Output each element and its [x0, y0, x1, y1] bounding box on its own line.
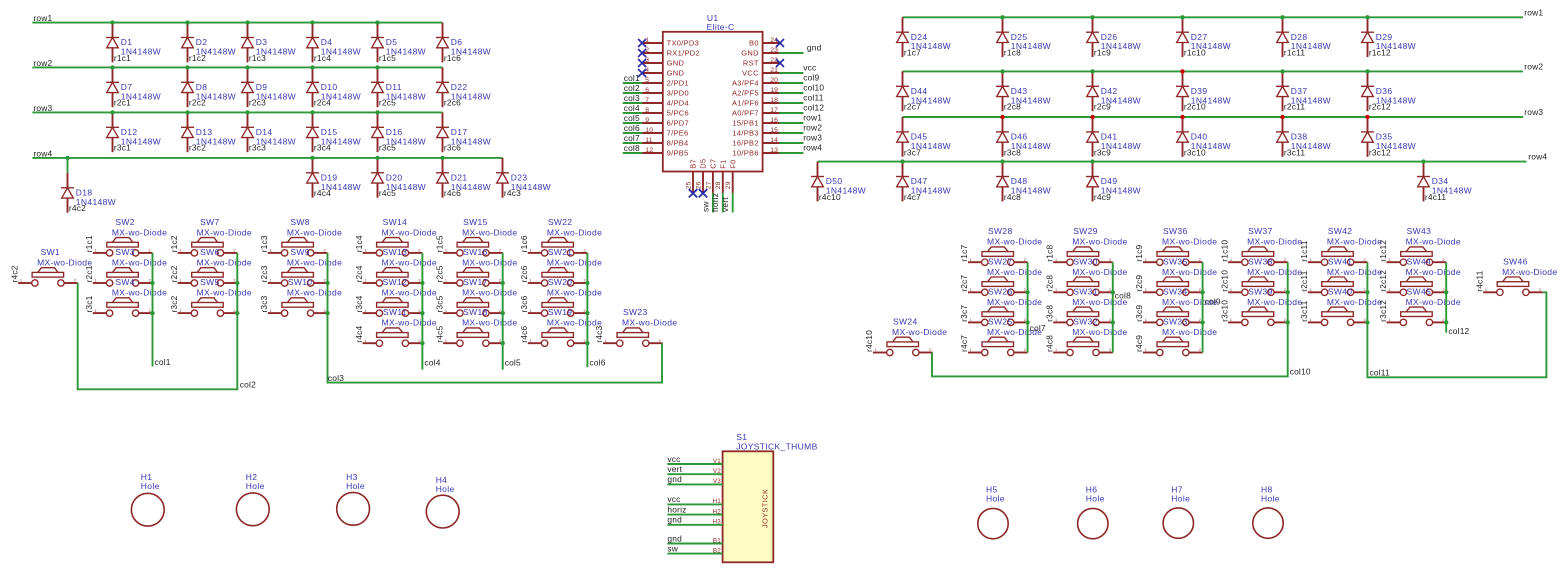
switch SW36 (MX-wo-Diode, net r1c9): [1134, 226, 1217, 265]
junction col4 r3: [420, 311, 424, 315]
junction col3/SW9: [325, 281, 329, 285]
svg-text:1: 1: [445, 309, 447, 313]
svg-text:D5: D5: [699, 159, 708, 169]
svg-text:MX-wo-Diode: MX-wo-Diode: [462, 227, 517, 237]
U1 pin 14 16/PB2: [732, 137, 780, 148]
diode D25 (1N4148W, net r1c8): [996, 17, 1051, 57]
svg-text:MX-wo-Diode: MX-wo-Diode: [987, 267, 1042, 277]
wire sw at U1 bottom: [712, 193, 714, 213]
svg-text:r2c7: r2c7: [904, 102, 921, 112]
svg-text:1: 1: [1388, 258, 1390, 262]
svg-text:r3c2: r3c2: [189, 143, 206, 153]
diode D13 (1N4148W, net r3c2): [181, 112, 236, 152]
diode D44 (1N4148W, net r2c7): [896, 71, 951, 111]
svg-text:col2: col2: [624, 83, 640, 93]
diode D49 (1N4148W, net r4c9): [1086, 162, 1141, 202]
svg-text:F1: F1: [718, 159, 727, 168]
svg-text:15: 15: [770, 127, 778, 134]
svg-text:SW38: SW38: [1248, 256, 1273, 266]
svg-text:SW45: SW45: [1407, 286, 1432, 296]
svg-text:MX-wo-Diode: MX-wo-Diode: [892, 327, 947, 337]
svg-text:6: 6: [645, 87, 649, 94]
svg-text:2: 2: [1442, 318, 1444, 322]
svg-text:SW4: SW4: [115, 277, 134, 287]
junction col2/SW6: [235, 281, 239, 285]
svg-text:col8: col8: [1115, 291, 1131, 301]
svg-text:r3c3: r3c3: [249, 143, 266, 153]
svg-text:2: 2: [584, 279, 586, 283]
junction row3 x187: [185, 110, 189, 114]
svg-text:A2/PF5: A2/PF5: [732, 88, 759, 97]
diode D37 (1N4148W, net r2c11): [1276, 71, 1331, 111]
diode D50 (1N4148W, net r4c10): [811, 162, 866, 202]
svg-text:2: 2: [74, 279, 76, 283]
svg-text:col8: col8: [624, 143, 640, 153]
wire col4: [421, 253, 423, 370]
diode D40 (1N4148W, net r3c10): [1176, 117, 1231, 157]
svg-text:2: 2: [1364, 258, 1366, 262]
diode D47 (1N4148W, net r4c7): [896, 162, 951, 202]
svg-text:r4c10: r4c10: [819, 192, 841, 202]
diode D38 (1N4148W, net r3c11): [1276, 117, 1331, 157]
svg-text:2: 2: [1024, 318, 1026, 322]
svg-text:row3: row3: [33, 103, 52, 113]
svg-text:r1c10: r1c10: [1184, 48, 1206, 58]
svg-text:col9: col9: [803, 72, 819, 82]
U1 pin 5 2/PD1: [642, 77, 689, 88]
svg-text:r2c1: r2c1: [84, 265, 94, 282]
svg-text:row2: row2: [33, 58, 52, 68]
wire col12 at U1: [779, 112, 803, 114]
svg-text:2: 2: [1442, 258, 1444, 262]
svg-text:r1c1: r1c1: [84, 235, 94, 252]
no-connect U1 pin 24: [776, 39, 784, 47]
diode D1 (1N4148W, net r1c1): [106, 23, 161, 63]
svg-text:1: 1: [530, 309, 532, 313]
svg-text:29: 29: [725, 181, 732, 189]
svg-text:4/PD4: 4/PD4: [667, 98, 689, 107]
svg-text:10: 10: [645, 127, 653, 134]
switch SW10 (MX-wo-Diode, net r3c3): [259, 277, 342, 316]
junction col6 r4: [585, 341, 589, 345]
wire col11 at U1: [779, 102, 803, 104]
svg-text:2: 2: [324, 309, 326, 313]
wire col1 at U1: [623, 82, 642, 84]
U1 pin 27 C7: [705, 159, 717, 193]
junction col11/SW40: [1365, 320, 1369, 324]
svg-text:1: 1: [1145, 288, 1147, 292]
svg-text:MX-wo-Diode: MX-wo-Diode: [1247, 297, 1302, 307]
diode D41 (1N4148W, net r3c9): [1086, 117, 1141, 157]
svg-text:col5: col5: [624, 113, 640, 123]
svg-text:MX-wo-Diode: MX-wo-Diode: [112, 288, 167, 298]
switch SW31 (MX-wo-Diode, net r3c8): [1044, 286, 1127, 325]
junction row2 x312: [310, 65, 314, 69]
junction row1 x1092: [1090, 15, 1094, 19]
diode D11 (1N4148W, net r2c5): [371, 67, 426, 107]
svg-text:MX-wo-Diode: MX-wo-Diode: [462, 258, 517, 268]
switch SW3 (MX-wo-Diode, net r2c1): [84, 247, 167, 286]
svg-text:SW27: SW27: [988, 256, 1013, 266]
svg-text:B1: B1: [713, 537, 721, 544]
svg-text:6/PD7: 6/PD7: [667, 118, 689, 127]
svg-text:SW23: SW23: [623, 307, 648, 317]
junction col1/SW3: [150, 281, 154, 285]
svg-text:SW41: SW41: [1328, 256, 1353, 266]
svg-text:8: 8: [645, 107, 649, 114]
svg-text:JOYSTICK_THUMB: JOYSTICK_THUMB: [736, 442, 817, 452]
svg-text:9: 9: [645, 117, 649, 124]
U1 pin 17 A0/PF7: [732, 107, 780, 118]
svg-text:14/PB3: 14/PB3: [732, 128, 758, 137]
wire col8 at U1: [623, 152, 642, 154]
S1 pin H1 net vcc: [667, 494, 722, 505]
svg-text:2: 2: [149, 279, 151, 283]
svg-text:MX-wo-Diode: MX-wo-Diode: [197, 288, 252, 298]
svg-text:A0/PF7: A0/PF7: [732, 108, 759, 117]
wire row3 at U1: [779, 142, 803, 144]
svg-text:SW13: SW13: [383, 247, 408, 257]
junction row2 x1182: [1180, 69, 1184, 73]
S1 pin V1 net vcc: [667, 454, 722, 465]
svg-text:MX-wo-Diode: MX-wo-Diode: [1162, 237, 1217, 247]
diode D45 (1N4148W, net r3c7): [896, 117, 951, 157]
svg-text:col11: col11: [1370, 367, 1391, 377]
U1 pin 29 F0: [725, 159, 737, 192]
svg-text:r1c6: r1c6: [444, 53, 461, 63]
svg-text:Hole: Hole: [1171, 494, 1190, 504]
switch SW21 (MX-wo-Diode, net r2c6): [519, 247, 602, 286]
svg-text:2: 2: [584, 339, 586, 343]
svg-text:r4c2: r4c2: [9, 265, 19, 282]
svg-text:23: 23: [770, 47, 778, 54]
svg-text:MX-wo-Diode: MX-wo-Diode: [287, 258, 342, 268]
junction col9 r3: [1200, 320, 1204, 324]
svg-text:13: 13: [770, 147, 778, 154]
svg-text:2: 2: [324, 249, 326, 253]
svg-text:1: 1: [605, 339, 607, 343]
junction row2 x112: [110, 65, 114, 69]
wire col2 at U1: [623, 92, 642, 94]
svg-text:r1c8: r1c8: [1044, 244, 1054, 261]
svg-text:r4c8: r4c8: [1044, 335, 1054, 352]
svg-text:r2c9: r2c9: [1094, 102, 1111, 112]
svg-text:r3c7: r3c7: [959, 305, 969, 322]
junction col2/SW5: [235, 311, 239, 315]
svg-text:MX-wo-Diode: MX-wo-Diode: [987, 297, 1042, 307]
junction row4 x1423: [1421, 159, 1425, 163]
svg-text:r1c7: r1c7: [959, 244, 969, 261]
U1 pin 2 RX1/PD2: [642, 47, 700, 58]
svg-text:2: 2: [233, 309, 235, 313]
junction row1 x1182: [1180, 15, 1184, 19]
svg-text:1: 1: [1145, 348, 1147, 352]
svg-text:7/PE6: 7/PE6: [667, 128, 689, 137]
switch SW12 (MX-wo-Diode, net r3c4): [354, 277, 437, 316]
svg-text:r1c9: r1c9: [1094, 48, 1111, 58]
svg-text:r4c11: r4c11: [1474, 270, 1484, 291]
diode D14 (1N4148W, net r3c3): [241, 112, 296, 152]
wire row1 (right segment): [903, 16, 1524, 18]
diode D4 (1N4148W, net r1c4): [306, 23, 361, 63]
svg-text:2: 2: [1024, 258, 1026, 262]
svg-text:col7: col7: [1030, 323, 1046, 333]
svg-text:r2c10: r2c10: [1184, 102, 1206, 112]
no-connect U1 pin 4: [638, 69, 646, 77]
junction row4 x1002: [1000, 159, 1004, 163]
svg-text:r2c5: r2c5: [434, 265, 444, 282]
svg-text:r2c9: r2c9: [1134, 275, 1144, 292]
svg-text:sw: sw: [667, 543, 678, 553]
U1 pin 12 9/PB5: [642, 147, 688, 158]
svg-text:12: 12: [645, 147, 653, 154]
svg-text:r1c11: r1c11: [1299, 240, 1309, 261]
junction row1 x377: [375, 20, 379, 24]
svg-text:MX-wo-Diode: MX-wo-Diode: [1072, 267, 1127, 277]
svg-text:1: 1: [179, 309, 181, 313]
svg-text:r2c1: r2c1: [114, 98, 131, 108]
svg-text:MX-wo-Diode: MX-wo-Diode: [1327, 267, 1382, 277]
junction row2 x1092: [1090, 69, 1094, 73]
diode D21 (1N4148W, net r4c6): [436, 158, 491, 198]
svg-text:r1c5: r1c5: [379, 53, 396, 63]
svg-text:2: 2: [1539, 288, 1541, 292]
wire gnd at U1: [779, 52, 803, 54]
svg-text:1: 1: [445, 249, 447, 253]
svg-text:r1c6: r1c6: [519, 235, 529, 252]
switch SW37 (MX-wo-Diode, net r1c10): [1219, 226, 1302, 265]
diode D29 (1N4148W, net r1c12): [1361, 17, 1416, 57]
junction col8 r2: [1111, 290, 1115, 294]
svg-text:MX-wo-Diode: MX-wo-Diode: [1162, 267, 1217, 277]
wire col9 at U1: [779, 82, 803, 84]
svg-text:SW10: SW10: [288, 277, 313, 287]
svg-text:2: 2: [233, 279, 235, 283]
switch SW13 (MX-wo-Diode, net r2c4): [354, 247, 437, 286]
diode D2 (1N4148W, net r1c2): [181, 23, 236, 63]
junction row2 x1367: [1365, 69, 1369, 73]
svg-text:2: 2: [499, 249, 501, 253]
svg-text:1: 1: [1055, 258, 1057, 262]
svg-text:MX-wo-Diode: MX-wo-Diode: [382, 258, 437, 268]
switch SW17 (MX-wo-Diode, net r3c5): [434, 277, 517, 316]
svg-text:RX1/PD2: RX1/PD2: [667, 48, 700, 57]
svg-text:2: 2: [1199, 288, 1201, 292]
svg-text:VCC: VCC: [742, 68, 759, 77]
U1 pin 24 B0: [749, 37, 780, 48]
svg-text:19: 19: [770, 87, 778, 94]
svg-text:1: 1: [1230, 288, 1232, 292]
junction col4 r2: [420, 281, 424, 285]
svg-text:1: 1: [1145, 258, 1147, 262]
svg-text:r1c2: r1c2: [169, 235, 179, 252]
svg-text:1: 1: [95, 309, 97, 313]
svg-text:row4: row4: [33, 148, 52, 158]
svg-text:SW5: SW5: [200, 277, 219, 287]
svg-text:Hole: Hole: [986, 494, 1005, 504]
junction col5 r3: [501, 311, 505, 315]
svg-text:2: 2: [584, 249, 586, 253]
svg-text:MX-wo-Diode: MX-wo-Diode: [382, 288, 437, 298]
svg-text:r1c3: r1c3: [249, 53, 266, 63]
wire col7: [1027, 262, 1029, 352]
svg-text:r2c6: r2c6: [519, 265, 529, 282]
svg-text:14: 14: [770, 137, 778, 144]
svg-text:MX-wo-Diode: MX-wo-Diode: [287, 288, 342, 298]
wire row4 (right segment): [818, 161, 1527, 163]
svg-text:MX-wo-Diode: MX-wo-Diode: [382, 227, 437, 237]
switch SW46 (MX-wo-Diode, net r4c11): [1474, 256, 1557, 295]
switch SW14 (MX-wo-Diode, net r1c4): [354, 217, 437, 256]
wire col9: [1202, 262, 1204, 352]
switch SW28 (MX-wo-Diode, net r1c7): [959, 226, 1042, 265]
svg-text:1: 1: [270, 279, 272, 283]
U1 pin 1 TX0/PD3: [642, 37, 699, 48]
diode D5 (1N4148W, net r1c5): [371, 23, 426, 63]
svg-text:r2c11: r2c11: [1299, 270, 1309, 291]
svg-text:MX-wo-Diode: MX-wo-Diode: [462, 318, 517, 328]
switch SW25 (MX-wo-Diode, net r4c7): [959, 317, 1042, 356]
svg-text:SW36: SW36: [1163, 226, 1188, 236]
svg-text:16: 16: [770, 117, 778, 124]
diode D8 (1N4148W, net r2c2): [181, 67, 236, 107]
svg-text:B0: B0: [749, 38, 759, 47]
svg-text:r2c2: r2c2: [169, 265, 179, 282]
svg-text:1: 1: [1310, 318, 1312, 322]
svg-text:vert: vert: [720, 197, 730, 212]
diode D16 (1N4148W, net r3c5): [371, 112, 426, 152]
svg-text:r4c5: r4c5: [379, 188, 396, 198]
svg-text:MX-wo-Diode: MX-wo-Diode: [622, 318, 677, 328]
svg-text:A1/PF6: A1/PF6: [732, 98, 759, 107]
svg-text:GND: GND: [667, 68, 685, 77]
svg-text:r3c10: r3c10: [1184, 147, 1206, 157]
svg-text:MX-wo-Diode: MX-wo-Diode: [547, 258, 602, 268]
hole H5: [978, 484, 1008, 539]
U1 pin 6 3/PD0: [642, 87, 689, 98]
U1 pin 22 RST: [743, 57, 780, 68]
svg-text:TX0/PD3: TX0/PD3: [667, 38, 700, 47]
svg-text:r2c3: r2c3: [259, 265, 269, 282]
svg-text:r4c4: r4c4: [314, 188, 331, 198]
svg-text:1: 1: [1055, 318, 1057, 322]
switch SW33 (MX-wo-Diode, net r4c9): [1134, 317, 1217, 356]
switch SW8 (MX-wo-Diode, net r1c3): [259, 217, 342, 256]
svg-text:r3c4: r3c4: [314, 143, 331, 153]
svg-text:SW8: SW8: [290, 217, 309, 227]
svg-text:2: 2: [324, 279, 326, 283]
svg-text:r3c4: r3c4: [354, 295, 364, 312]
svg-text:SW19: SW19: [548, 307, 573, 317]
wire row4 at U1: [779, 152, 803, 154]
svg-text:MX-wo-Diode: MX-wo-Diode: [462, 288, 517, 298]
diode D34 (1N4148W, net r4c11): [1417, 162, 1472, 202]
junction row3 x1092: [1090, 115, 1094, 119]
diode D46 (1N4148W, net r3c8): [996, 117, 1051, 157]
junction row4 x312: [310, 156, 314, 160]
U1 pin 7 4/PD4: [642, 97, 689, 108]
svg-text:1: 1: [970, 318, 972, 322]
svg-text:21: 21: [770, 67, 778, 74]
svg-text:col4: col4: [424, 357, 440, 367]
svg-text:r4c8: r4c8: [1004, 192, 1021, 202]
svg-text:1: 1: [530, 339, 532, 343]
svg-text:SW37: SW37: [1248, 226, 1273, 236]
svg-text:col7: col7: [624, 133, 640, 143]
switch SW15 (MX-wo-Diode, net r1c5): [434, 217, 517, 256]
svg-text:2: 2: [1109, 348, 1111, 352]
junction row3 x112: [110, 110, 114, 114]
svg-text:r2c5: r2c5: [379, 98, 396, 108]
junction col5 r2: [501, 281, 505, 285]
switch SW4 (MX-wo-Diode, net r3c1): [84, 277, 167, 316]
switch SW2 (MX-wo-Diode, net r1c1): [84, 217, 167, 256]
U1 pin 15 14/PB3: [732, 127, 780, 138]
svg-text:1: 1: [875, 348, 877, 352]
junction row4 x442: [440, 156, 444, 160]
junction row4 x1092: [1090, 159, 1094, 163]
svg-text:r2c12: r2c12: [1378, 270, 1388, 292]
svg-text:V3: V3: [713, 478, 721, 485]
svg-text:SW18: SW18: [463, 307, 488, 317]
svg-text:SW11: SW11: [383, 307, 407, 317]
svg-text:SW7: SW7: [200, 217, 219, 227]
svg-text:2: 2: [1024, 288, 1026, 292]
svg-text:2: 2: [1284, 318, 1286, 322]
wire row1 (left segment): [32, 22, 442, 24]
svg-text:r1c8: r1c8: [1004, 48, 1021, 58]
svg-text:col10: col10: [1290, 367, 1311, 377]
svg-text:r4c7: r4c7: [959, 335, 969, 352]
junction row3 x377: [375, 110, 379, 114]
junction row4 x67: [65, 156, 69, 160]
svg-text:SW14: SW14: [383, 217, 408, 227]
svg-text:row1: row1: [1524, 7, 1543, 17]
svg-text:col6: col6: [589, 357, 605, 367]
svg-text:r2c4: r2c4: [314, 98, 331, 108]
svg-text:r4c2: r4c2: [69, 203, 86, 213]
svg-text:r4c6: r4c6: [444, 188, 461, 198]
wire col8: [1112, 262, 1114, 352]
junction row1 x1367: [1365, 15, 1369, 19]
switch SW5 (MX-wo-Diode, net r3c2): [169, 277, 252, 316]
svg-text:r3c8: r3c8: [1044, 305, 1054, 322]
svg-text:2: 2: [584, 309, 586, 313]
switch SW38 (MX-wo-Diode, net r2c10): [1219, 256, 1302, 295]
svg-text:row3: row3: [1524, 107, 1543, 117]
svg-text:horiz: horiz: [710, 193, 720, 212]
no-connect U1 pin 25: [689, 189, 697, 197]
svg-text:B7: B7: [689, 159, 698, 169]
switch SW35 (MX-wo-Diode, net r2c9): [1134, 256, 1217, 295]
svg-text:SW3: SW3: [115, 247, 134, 257]
svg-text:1: 1: [1485, 288, 1487, 292]
svg-text:MX-wo-Diode: MX-wo-Diode: [547, 288, 602, 298]
svg-text:vcc: vcc: [667, 494, 680, 504]
svg-text:3/PD0: 3/PD0: [667, 88, 689, 97]
S1 pin B1 net gnd: [667, 533, 722, 544]
wire col1: [152, 253, 154, 367]
svg-text:2/PD1: 2/PD1: [667, 78, 689, 87]
svg-text:SW39: SW39: [1248, 286, 1273, 296]
switch SW24 (MX-wo-Diode, net r4c10): [864, 317, 947, 356]
svg-text:MX-wo-Diode: MX-wo-Diode: [382, 318, 437, 328]
hole H7: [1163, 484, 1193, 538]
wire row4 (left segment): [32, 157, 502, 159]
svg-text:JOYSTICK: JOYSTICK: [760, 489, 769, 528]
wire col5: [502, 253, 504, 370]
svg-text:r3c7: r3c7: [904, 147, 921, 157]
